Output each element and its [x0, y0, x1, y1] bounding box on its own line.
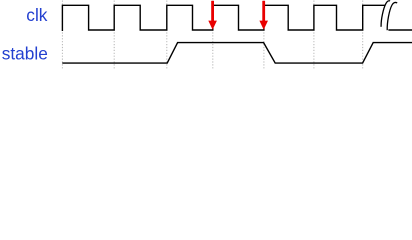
svg-text:stable: stable [2, 43, 48, 63]
svg-text:clk: clk [26, 5, 47, 25]
